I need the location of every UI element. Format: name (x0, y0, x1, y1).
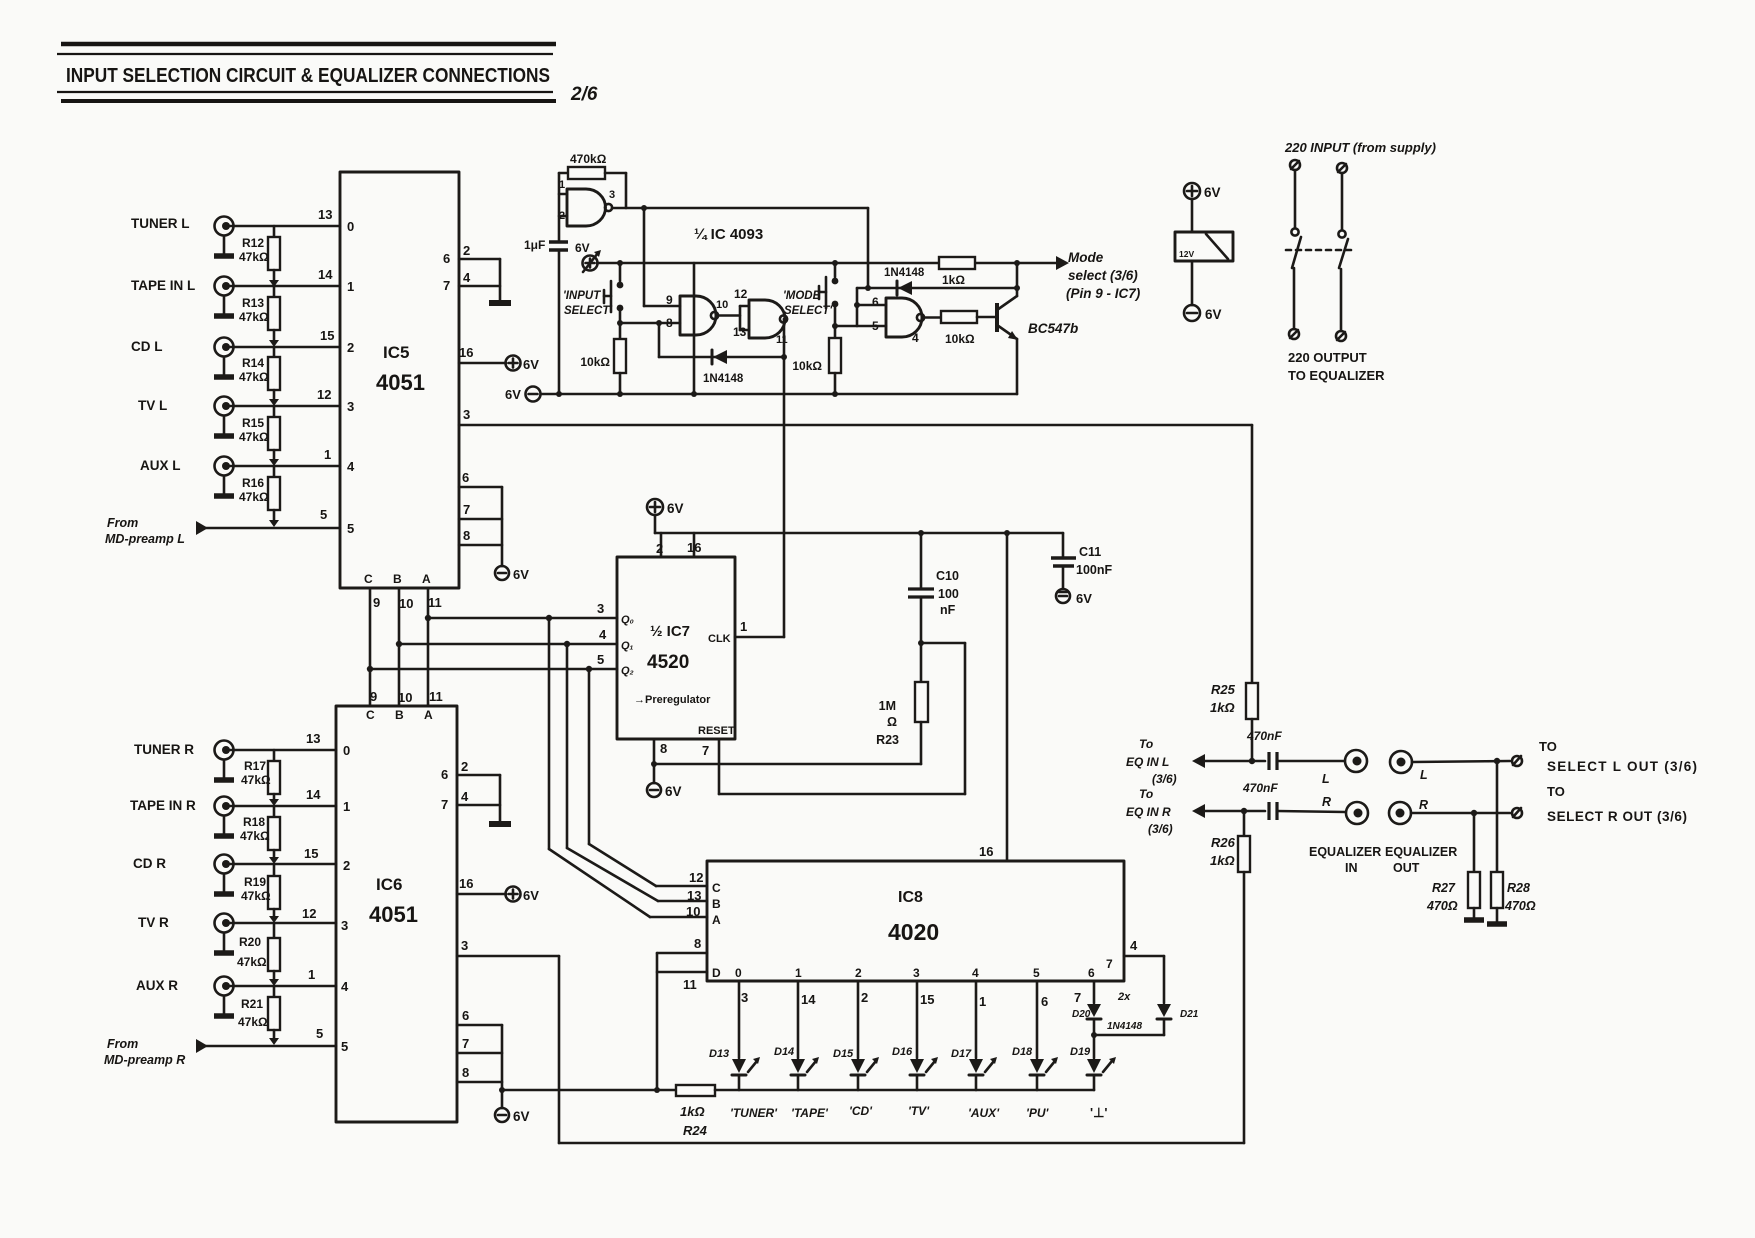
title rule bottom thin (57, 91, 553, 93)
svg-text:TV R: TV R (138, 915, 169, 930)
svg-text:2: 2 (855, 966, 862, 980)
LED D17 AUX (951, 981, 1000, 1120)
svg-text:10: 10 (399, 596, 413, 611)
svg-text:B: B (712, 897, 721, 911)
wire NAND2 out to NAND3 inputs (718, 306, 749, 330)
resistor R23 1M (876, 682, 928, 764)
svg-text:12: 12 (689, 870, 703, 885)
svg-text:2x: 2x (1117, 991, 1131, 1003)
svg-text:1μF: 1μF (524, 238, 545, 252)
IC5 bottom pins C B A (364, 572, 442, 611)
svg-text:1kΩ: 1kΩ (1210, 853, 1235, 868)
svg-text:EQ IN R: EQ IN R (1126, 805, 1171, 819)
svg-text:220 OUTPUT: 220 OUTPUT (1288, 350, 1367, 365)
svg-text:1: 1 (324, 447, 331, 462)
svg-text:'⊥': '⊥' (1090, 1105, 1108, 1120)
svg-text:6V: 6V (513, 567, 529, 582)
svg-text:R25: R25 (1211, 682, 1236, 697)
svg-text:TO EQUALIZER: TO EQUALIZER (1288, 368, 1385, 383)
RCA jack equalizer in L (1345, 750, 1367, 772)
svg-text:6: 6 (462, 470, 469, 485)
svg-text:IC5: IC5 (383, 343, 409, 362)
svg-text:'PU': 'PU' (1026, 1106, 1050, 1120)
svg-text:6V: 6V (523, 888, 539, 903)
svg-text:1: 1 (740, 619, 747, 634)
wire equalizer out R to select (1411, 810, 1510, 816)
svg-text:SELECT R OUT (3/6): SELECT R OUT (3/6) (1547, 809, 1687, 824)
power -6V feeding NAND rail (505, 387, 541, 403)
wire button node to NAND2 input 8 (617, 320, 680, 326)
resistor R18 47k (240, 806, 280, 864)
label 220 OUTPUT TO EQUALIZER (1288, 350, 1385, 383)
svg-text:AUX R: AUX R (136, 978, 178, 993)
power -6V below C11 (1056, 589, 1092, 606)
svg-text:IN: IN (1345, 861, 1358, 875)
title rule bottom thick (61, 99, 556, 103)
svg-text:CD L: CD L (131, 339, 163, 354)
svg-text:10kΩ: 10kΩ (792, 359, 822, 373)
wire IC8 pin16 vertical rail (1006, 533, 1009, 861)
relay coil 12V (1175, 232, 1233, 261)
svg-text:1: 1 (795, 966, 802, 980)
svg-text:C10: C10 (936, 569, 959, 583)
svg-text:47kΩ: 47kΩ (239, 430, 269, 444)
svg-text:R16: R16 (242, 476, 264, 490)
svg-text:'TV': 'TV' (908, 1104, 930, 1118)
wire TUNER L to IC5 pin13 (230, 207, 354, 234)
svg-text:R: R (1419, 798, 1428, 812)
IC U7 4520 counter IC7 (617, 557, 735, 739)
wire +6V rail y263 (597, 260, 1056, 266)
wire From MD-preamp L to IC5 pin5 (205, 507, 354, 536)
wire IC5 pin16 (459, 345, 506, 363)
wire bus C from IC5 pin9 to IC6 pin9 (369, 588, 372, 706)
svg-text:R13: R13 (242, 296, 264, 310)
wire TUNER R to IC6 pin13 (230, 731, 350, 758)
svg-text:Q₀: Q₀ (621, 614, 634, 626)
wire TV L to IC5 pin12 (230, 387, 354, 414)
wire IC5 pins 6/7/8 bracket (459, 470, 502, 566)
power +6V at IC6 pin16 (506, 887, 540, 904)
svg-text:D: D (712, 966, 721, 980)
svg-text:(Pin 9 - IC7): (Pin 9 - IC7) (1066, 286, 1141, 301)
power -6V relay coil (1184, 261, 1222, 322)
power +6V relay coil (1184, 183, 1221, 232)
wire IC6 pins 2/4 bracket to ground (441, 759, 500, 822)
power +6V arrow supply to rail (575, 241, 601, 272)
ground IC6 pins 2/4 (489, 821, 511, 827)
wire button node to NAND4 input 5 (832, 323, 886, 329)
power +6V at IC5 pin16 (506, 356, 540, 373)
node To EQ IN L arrow (1126, 737, 1205, 786)
svg-text:5: 5 (597, 652, 604, 667)
svg-text:(3/6): (3/6) (1148, 822, 1173, 836)
IC U5 4051 analog multiplexer IC5 (340, 172, 459, 588)
svg-text:INPUT SELECTION CIRCUIT & EQUA: INPUT SELECTION CIRCUIT & EQUALIZER CONN… (66, 65, 550, 87)
svg-text:8: 8 (666, 316, 673, 330)
label EQUALIZER IN (1309, 845, 1381, 875)
resistor R17 47k (241, 750, 280, 806)
svg-text:'AUX': 'AUX' (968, 1106, 1000, 1120)
svg-text:470nF: 470nF (1246, 729, 1282, 743)
svg-text:0: 0 (343, 743, 350, 758)
svg-text:14: 14 (801, 992, 816, 1007)
ground IC5 pins 2/4 (489, 300, 511, 306)
svg-text:14: 14 (306, 787, 321, 802)
svg-text:Mode: Mode (1068, 250, 1104, 265)
svg-text:OUT: OUT (1393, 861, 1420, 875)
svg-text:1: 1 (347, 279, 354, 294)
svg-text:R26: R26 (1211, 835, 1236, 850)
svg-text:6: 6 (462, 1008, 469, 1023)
switch MODE SELECT pushbutton (783, 263, 838, 326)
svg-text:7: 7 (1074, 990, 1081, 1005)
capacitor 1uF oscillator (524, 238, 568, 394)
power -6V at IC5 pin 6/7/8 (495, 566, 529, 582)
svg-text:D19: D19 (1070, 1046, 1091, 1058)
svg-text:6V: 6V (665, 784, 682, 799)
svg-text:9: 9 (373, 595, 380, 610)
svg-text:100nF: 100nF (1076, 563, 1112, 577)
svg-text:0: 0 (347, 219, 354, 234)
wire Q2 line to IC7 pin5 (367, 652, 617, 672)
svg-text:16: 16 (687, 540, 701, 555)
svg-text:4: 4 (461, 789, 469, 804)
svg-text:4: 4 (463, 270, 471, 285)
svg-text:2: 2 (347, 340, 354, 355)
svg-text:TAPE IN L: TAPE IN L (131, 278, 195, 293)
svg-text:1kΩ: 1kΩ (942, 273, 965, 287)
svg-text:Q₁: Q₁ (621, 640, 634, 652)
RCA jack equalizer in R (1346, 802, 1368, 824)
wire IC5 pins 2/4 bracket to ground (443, 243, 500, 301)
svg-text:IC8: IC8 (898, 889, 923, 906)
svg-text:47kΩ: 47kΩ (239, 310, 269, 324)
capacitor C10 100nF (908, 533, 959, 682)
LED D19 common (1070, 1046, 1116, 1120)
svg-text:1N4148: 1N4148 (1107, 1021, 1142, 1032)
svg-text:4: 4 (972, 966, 979, 980)
LED D13 TUNER (709, 981, 778, 1120)
svg-text:3: 3 (341, 918, 348, 933)
svg-text:3: 3 (461, 938, 468, 953)
switch relay contact 1 (1289, 160, 1301, 339)
svg-text:6V: 6V (1076, 591, 1092, 606)
wire IC7 CLK pin1 (735, 619, 784, 637)
svg-text:4051: 4051 (369, 902, 418, 927)
power -6V at IC6 pins 6/7/8 (495, 1108, 530, 1124)
svg-text:Q₂: Q₂ (621, 665, 634, 677)
svg-text:4: 4 (912, 331, 919, 345)
wire bus A down to IC8 pin C (589, 669, 707, 886)
svg-text:6: 6 (872, 295, 879, 309)
wire +6V rail y533 (655, 530, 1063, 536)
svg-text:SELECT': SELECT' (564, 305, 613, 317)
diode D20 1N4148 (1072, 981, 1101, 1058)
wire mode select output arrow (1056, 250, 1141, 301)
resistor R14 47k (239, 347, 280, 406)
svg-text:6: 6 (1041, 994, 1048, 1009)
svg-text:BC547b: BC547b (1028, 321, 1078, 336)
svg-text:47kΩ: 47kΩ (240, 829, 270, 843)
switch relay contact 2 (1336, 163, 1348, 341)
svg-text:MD-preamp R: MD-preamp R (104, 1053, 185, 1067)
svg-text:MD-preamp L: MD-preamp L (105, 532, 185, 546)
svg-text:10: 10 (686, 904, 700, 919)
wire TAPE IN L to IC5 pin14 (230, 267, 354, 294)
svg-text:15: 15 (304, 846, 318, 861)
svg-text:C: C (712, 881, 721, 895)
svg-text:select (3/6): select (3/6) (1068, 268, 1138, 283)
wire collector to rail / diode node (1014, 263, 1020, 296)
node From MD-preamp R arrow (104, 1037, 208, 1067)
svg-text:1N4148: 1N4148 (884, 267, 925, 279)
NAND gate U1c 4093 (733, 287, 788, 346)
svg-text:R: R (1322, 795, 1331, 809)
svg-text:6: 6 (443, 251, 450, 266)
svg-text:13: 13 (687, 888, 701, 903)
svg-text:47kΩ: 47kΩ (241, 889, 271, 903)
IC6 top pins C B A numbers (370, 689, 443, 705)
label EQUALIZER OUT (1385, 845, 1457, 875)
svg-text:7: 7 (1106, 957, 1113, 971)
resistor 10k input-select pulldown (580, 323, 626, 394)
svg-text:0: 0 (735, 966, 742, 980)
svg-text:TUNER L: TUNER L (131, 216, 190, 231)
svg-text:1: 1 (343, 799, 350, 814)
svg-text:5: 5 (1033, 966, 1040, 980)
wire NAND1 inputs and feedback (559, 173, 626, 240)
svg-text:7: 7 (462, 1036, 469, 1051)
svg-text:TO: TO (1547, 784, 1565, 799)
NAND gate U1a 4093 oscillator (559, 179, 615, 226)
svg-text:6V: 6V (1204, 185, 1221, 200)
RCA jack AUX R (136, 977, 234, 1017)
wire EQ R line with junction (1203, 808, 1265, 814)
title rule top thin (57, 53, 553, 55)
svg-text:16: 16 (459, 876, 473, 891)
resistor R26 1k (1210, 811, 1250, 1143)
RCA jack CD L (131, 338, 234, 378)
svg-text:R15: R15 (242, 416, 264, 430)
wire mechanical link dashed (1286, 249, 1353, 252)
svg-text:R27: R27 (1432, 881, 1456, 895)
NAND gate U1b 4093 (666, 293, 728, 335)
resistor 1k collector pull-up (939, 257, 975, 287)
RCA jack TV R (138, 914, 234, 954)
capacitor C11 100nF (1051, 533, 1112, 589)
svg-text:nF: nF (940, 603, 956, 617)
wire NAND1 output line (612, 205, 868, 211)
LED D15 CD (833, 981, 879, 1118)
svg-text:'TUNER': 'TUNER' (730, 1106, 778, 1120)
svg-text:R18: R18 (243, 815, 265, 829)
power -6V at IC7 pin8 (647, 783, 682, 799)
svg-text:R21: R21 (241, 997, 263, 1011)
svg-text:6V: 6V (513, 1109, 530, 1124)
wire bus A from IC5 pin11 to IC6 pin11 (427, 588, 430, 706)
svg-text:2: 2 (343, 858, 350, 873)
svg-text:1M: 1M (879, 699, 896, 713)
resistor 470k oscillator feedback (559, 152, 626, 179)
RCA jack TV L (138, 397, 234, 437)
svg-text:11: 11 (429, 689, 443, 704)
svg-text:IC6: IC6 (376, 875, 402, 894)
svg-text:4: 4 (347, 459, 355, 474)
wire EQ L line with junction (1203, 758, 1265, 764)
diode 1N4148 at NAND4 input 6 (884, 267, 925, 295)
svg-text:'TAPE': 'TAPE' (791, 1106, 829, 1120)
wire IC5 pin3 long select line (459, 407, 1252, 425)
svg-text:3: 3 (913, 966, 920, 980)
wire IC6 pin3 to bottom rail (457, 938, 559, 1143)
svg-text:4: 4 (599, 627, 607, 642)
resistor 10k base resistor (924, 311, 997, 346)
svg-text:47kΩ: 47kΩ (241, 773, 271, 787)
wire Q1 line to IC7 pin4 (396, 627, 617, 647)
svg-text:11: 11 (683, 977, 697, 992)
svg-text:TAPE IN R: TAPE IN R (130, 798, 196, 813)
svg-text:470Ω: 470Ω (1426, 899, 1458, 913)
resistor R27 470 (1426, 813, 1484, 920)
svg-text:1: 1 (308, 967, 315, 982)
LED D18 PU (1012, 981, 1058, 1120)
svg-text:5: 5 (320, 507, 327, 522)
svg-text:TV L: TV L (138, 398, 167, 413)
svg-text:2: 2 (463, 243, 470, 258)
resistor R12 47k (239, 226, 280, 287)
svg-text:4520: 4520 (647, 652, 689, 673)
resistor R15 47k (239, 406, 280, 466)
resistor R25 1k (1210, 425, 1258, 761)
RCA jack TAPE IN R (130, 797, 234, 837)
svg-text:6: 6 (1088, 966, 1095, 980)
svg-text:4020: 4020 (888, 919, 939, 945)
svg-text:7: 7 (443, 278, 450, 293)
svg-text:10kΩ: 10kΩ (580, 355, 610, 369)
svg-text:R24: R24 (683, 1123, 708, 1138)
RCA jack AUX L (140, 457, 234, 497)
svg-text:¼ IC 4093: ¼ IC 4093 (694, 226, 763, 243)
wire TV R to IC6 pin12 (230, 906, 348, 933)
svg-text:R28: R28 (1507, 881, 1530, 895)
svg-text:To: To (1139, 787, 1153, 801)
svg-text:6V: 6V (667, 501, 684, 516)
svg-text:2/6: 2/6 (570, 84, 598, 105)
resistor R24 1k (676, 1085, 715, 1138)
svg-text:B: B (395, 708, 404, 722)
svg-text:6V: 6V (523, 357, 539, 372)
svg-text:Ω: Ω (887, 715, 897, 729)
wire bottom rail to R26 (559, 1142, 1244, 1145)
wire AUX R to IC6 pin1 (230, 967, 349, 994)
svg-text:AUX L: AUX L (140, 458, 181, 473)
svg-text:11: 11 (428, 595, 442, 610)
wire LED common to R24 (502, 1089, 676, 1092)
svg-text:D18: D18 (1012, 1046, 1033, 1058)
svg-text:→Preregulator: →Preregulator (634, 694, 711, 706)
svg-text:SELECT L OUT (3/6): SELECT L OUT (3/6) (1547, 759, 1697, 774)
svg-text:12: 12 (734, 287, 748, 301)
wire -6V bottom rail (541, 391, 1017, 397)
svg-text:L: L (1322, 772, 1330, 786)
svg-text:47kΩ: 47kΩ (239, 490, 269, 504)
node terminal select L out (1512, 739, 1697, 774)
svg-text:½ IC7: ½ IC7 (650, 623, 690, 640)
svg-text:6V: 6V (575, 241, 590, 255)
svg-text:47kΩ: 47kΩ (238, 1015, 268, 1029)
svg-text:6: 6 (441, 767, 448, 782)
wire From MD-preamp R to IC6 pin5 (205, 1026, 348, 1054)
wire IC7 pins 2 16 stubs (656, 533, 701, 557)
NAND gate U1d 4093 (872, 295, 924, 345)
svg-text:C: C (364, 572, 373, 586)
svg-text:13: 13 (318, 207, 332, 222)
resistor R13 47k (239, 286, 280, 347)
svg-text:4: 4 (1130, 938, 1138, 953)
svg-text:15: 15 (320, 328, 334, 343)
svg-text:CLK: CLK (708, 633, 731, 645)
svg-text:(3/6): (3/6) (1152, 772, 1177, 786)
svg-text:15: 15 (920, 992, 934, 1007)
svg-text:16: 16 (459, 345, 473, 360)
wire bus C down to IC8 pin A (549, 618, 707, 917)
svg-text:470Ω: 470Ω (1504, 899, 1536, 913)
resistor R28 470 (1487, 761, 1536, 924)
RCA jack TAPE IN L (131, 277, 234, 317)
diode 1N4148 feedback to NAND2 input 8 (659, 323, 784, 385)
svg-text:From: From (107, 516, 138, 530)
svg-text:1N4148: 1N4148 (703, 373, 744, 385)
wire bus B from IC5 pin10 to IC6 pin10 (398, 588, 401, 706)
wire IC6 pin16 (457, 876, 506, 894)
svg-text:1kΩ: 1kΩ (680, 1104, 705, 1119)
svg-text:D16: D16 (892, 1046, 913, 1058)
IC U6 4051 analog multiplexer IC6 (336, 706, 457, 1122)
svg-text:8: 8 (463, 528, 470, 543)
svg-text:3: 3 (347, 399, 354, 414)
svg-text:6V: 6V (505, 387, 521, 402)
svg-text:'CD': 'CD' (849, 1104, 873, 1118)
svg-text:7: 7 (441, 797, 448, 812)
svg-text:47kΩ: 47kΩ (239, 250, 269, 264)
svg-text:C11: C11 (1079, 545, 1101, 559)
svg-text:4: 4 (341, 979, 349, 994)
svg-text:220 INPUT (from supply): 220 INPUT (from supply) (1284, 140, 1436, 155)
IC8 pin labels left (686, 870, 721, 927)
switch INPUT SELECT pushbutton (563, 263, 623, 323)
IC U8 4020 counter IC8 (707, 844, 1124, 981)
wire AUX L to IC5 pin1 (230, 447, 355, 474)
wire CD L to IC5 pin15 (230, 328, 354, 355)
svg-text:D17: D17 (951, 1048, 972, 1060)
svg-text:2: 2 (861, 990, 868, 1005)
wire equalizer out L to select (1412, 758, 1510, 764)
LED D14 TAPE (774, 981, 829, 1120)
svg-text:A: A (712, 913, 721, 927)
svg-text:D21: D21 (1180, 1009, 1199, 1020)
IC8 bottom pin numbers inside (735, 957, 1113, 980)
svg-text:47kΩ: 47kΩ (239, 370, 269, 384)
transistor Q1 BC547b (997, 296, 1078, 340)
svg-text:3: 3 (609, 189, 615, 201)
node terminal select R out (1512, 784, 1687, 824)
node From MD-preamp L arrow (105, 516, 208, 546)
wire TAPE IN R to IC6 pin14 (230, 787, 350, 814)
resistor R21 47k (238, 986, 280, 1045)
node To EQ IN R arrow (1126, 787, 1205, 836)
svg-text:11: 11 (776, 334, 788, 346)
